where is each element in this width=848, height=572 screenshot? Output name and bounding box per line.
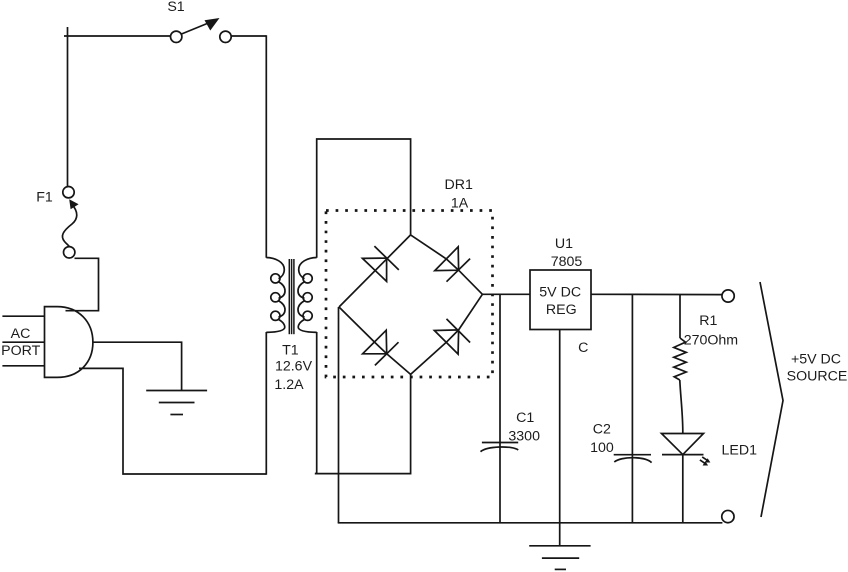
fuse F1: [62, 187, 78, 259]
wire top-left horizontal: [64, 35, 171, 37]
svg-text:R1: R1: [699, 313, 717, 329]
LED LED1: [662, 434, 711, 523]
output bracket: [760, 282, 783, 517]
wire regulator output: [591, 293, 722, 295]
svg-text:S1: S1: [167, 0, 184, 15]
wire bridge left node down to rail: [338, 307, 340, 523]
svg-text:PORT: PORT: [1, 343, 40, 359]
negative rail: [338, 522, 723, 524]
svg-text:7805: 7805: [551, 254, 583, 270]
diode D2 (upper-right): [435, 247, 470, 282]
diode D4 (lower-right): [434, 319, 470, 354]
svg-text:REG: REG: [546, 302, 577, 318]
svg-text:F1: F1: [36, 190, 53, 206]
wire AC middle pin to ground: [93, 342, 182, 390]
svg-text:C2: C2: [593, 422, 611, 438]
capacitor C2: [614, 294, 652, 523]
svg-text:12.6V: 12.6V: [275, 358, 313, 374]
wire from switch to transformer corner: [231, 35, 266, 37]
svg-text:1.2A: 1.2A: [274, 377, 304, 393]
svg-text:100: 100: [590, 440, 614, 456]
wire regulator ground pin: [559, 330, 561, 546]
AC port plug body: [45, 307, 93, 378]
wire bridge right node to regulator: [482, 293, 530, 295]
terminal (negative output): [722, 510, 734, 522]
svg-text:LED1: LED1: [722, 443, 758, 459]
resistor R1: [674, 295, 686, 434]
diode D3 (lower-left): [363, 330, 399, 365]
svg-text:AC: AC: [11, 326, 31, 342]
wire transformer primary bottom: [265, 332, 267, 475]
transformer core: [289, 259, 294, 334]
wire down to transformer primary: [265, 35, 267, 258]
svg-text:C1: C1: [516, 410, 534, 426]
AC port pin 2: [2, 341, 44, 343]
transformer T1 secondary winding: [298, 258, 317, 333]
svg-text:1A: 1A: [451, 196, 469, 212]
terminal (positive output): [722, 290, 734, 302]
capacitor C1: [481, 294, 519, 523]
svg-text:SOURCE: SOURCE: [787, 369, 848, 385]
bridge rectifier DR1 dotted box: [326, 211, 493, 378]
AC port pin 3: [2, 365, 44, 367]
AC port pin 1: [2, 315, 44, 317]
wire fuse to corner: [66, 258, 99, 310]
wire bridge bottom-right arm: [411, 294, 483, 374]
ground (bottom): [529, 546, 590, 570]
regulator U1 box: [530, 270, 591, 330]
switch S1: [171, 18, 232, 43]
wire secondary bottom to bridge: [315, 332, 317, 474]
svg-text:C: C: [578, 340, 588, 356]
wire secondary top to bridge: [317, 139, 411, 258]
wire bridge top-left arm: [339, 235, 411, 307]
wire bridge top-right arm: [411, 235, 483, 294]
svg-text:T1: T1: [282, 343, 299, 359]
ground (left): [146, 391, 207, 415]
transformer T1 primary winding: [266, 258, 285, 333]
svg-text:U1: U1: [555, 236, 573, 252]
svg-text:270Ohm: 270Ohm: [684, 333, 738, 349]
wire AC bottom pin out: [79, 368, 266, 474]
wire bridge bottom-left arm: [339, 307, 411, 374]
svg-text:3300: 3300: [508, 428, 540, 444]
svg-text:+5V DC: +5V DC: [791, 352, 841, 368]
wire bridge bottom node down: [315, 374, 411, 473]
svg-text:5V DC: 5V DC: [539, 285, 581, 301]
wire left vertical down to fuse: [67, 27, 69, 187]
svg-text:DR1: DR1: [445, 177, 473, 193]
diode D1 (upper-left): [363, 246, 399, 281]
